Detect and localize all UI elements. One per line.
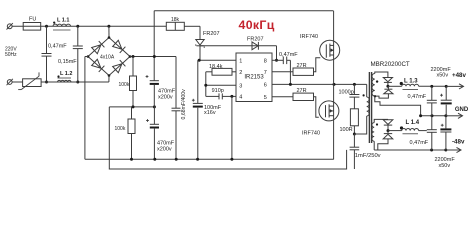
svg-text:1mF/250v: 1mF/250v	[355, 153, 381, 159]
svg-text:L 1.3: L 1.3	[404, 78, 418, 84]
svg-text:IR2153: IR2153	[244, 75, 264, 81]
svg-text:1: 1	[239, 58, 242, 64]
svg-text:0,47mF: 0,47mF	[408, 94, 427, 100]
svg-text:8: 8	[264, 59, 267, 65]
svg-text:L 1.4: L 1.4	[406, 120, 420, 126]
svg-text:2: 2	[239, 70, 242, 76]
svg-text:100k: 100k	[119, 82, 130, 88]
svg-text:1000p: 1000p	[339, 90, 354, 96]
svg-text:FR207: FR207	[203, 31, 220, 37]
svg-text:GND: GND	[455, 107, 469, 113]
svg-text:x200v: x200v	[157, 147, 172, 153]
svg-text:0,68mF/400v: 0,68mF/400v	[181, 89, 187, 120]
svg-text:3: 3	[239, 83, 242, 89]
svg-text:L 1.2: L 1.2	[60, 71, 72, 77]
svg-text:IRF740: IRF740	[302, 130, 320, 136]
svg-text:100R: 100R	[340, 127, 353, 133]
svg-text:0,47mF: 0,47mF	[410, 140, 429, 146]
svg-text:7: 7	[264, 70, 267, 76]
svg-text:910p: 910p	[212, 88, 224, 94]
svg-text:0,47mF: 0,47mF	[279, 52, 298, 58]
svg-text:x16v: x16v	[204, 110, 216, 116]
svg-text:FU: FU	[29, 17, 36, 23]
svg-text:+48v: +48v	[452, 72, 466, 79]
svg-text:x50v: x50v	[439, 163, 451, 169]
svg-text:L 1.1: L 1.1	[57, 18, 69, 24]
svg-text:x50v: x50v	[437, 72, 449, 78]
svg-text:100k: 100k	[115, 126, 126, 132]
svg-text:18k: 18k	[171, 17, 180, 23]
svg-text:4: 4	[239, 95, 242, 101]
svg-text:-48v: -48v	[452, 139, 465, 146]
svg-text:4x10A: 4x10A	[100, 54, 115, 60]
svg-text:0,15mF: 0,15mF	[58, 59, 77, 65]
svg-text:50Hz: 50Hz	[5, 52, 17, 58]
svg-text:FR207: FR207	[247, 36, 264, 42]
svg-text:IRF740: IRF740	[300, 34, 318, 40]
svg-text:5: 5	[264, 95, 267, 101]
svg-text:MBR20200CT: MBR20200CT	[371, 61, 410, 68]
svg-text:6: 6	[264, 83, 267, 89]
svg-text:x200v: x200v	[158, 95, 173, 101]
svg-text:40кГц: 40кГц	[239, 18, 275, 32]
svg-text:0,47mF: 0,47mF	[48, 44, 67, 50]
